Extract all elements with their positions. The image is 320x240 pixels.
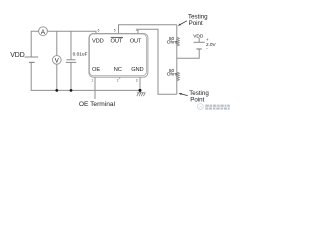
resistor R1 50 Ohm zigzag [177, 37, 180, 46]
wire voltmeter branch upper [56, 31, 58, 56]
wire capacitor branch upper [70, 31, 72, 60]
wire VDD stub above battery B2 [198, 38, 200, 43]
svg-text:Ohm: Ohm [167, 40, 177, 46]
svg-text:OUT: OUT [130, 38, 142, 44]
resistor R2 50 Ohm zigzag [177, 72, 180, 81]
watermark text [205, 105, 230, 110]
svg-text:1: 1 [91, 79, 93, 83]
wire battery negative down to ground bus [31, 62, 140, 90]
svg-text:V: V [55, 59, 59, 65]
svg-text:VDD: VDD [193, 33, 204, 39]
svg-text:Point: Point [190, 96, 204, 103]
svg-text:Point: Point [189, 20, 203, 27]
pin 2 NC stub [119, 77, 121, 79]
watermark logo [197, 104, 203, 110]
svg-text:OE: OE [92, 67, 100, 73]
svg-text:NC: NC [114, 67, 122, 73]
voltmeter V1 [53, 56, 62, 65]
junction dot voltmeter/ground bus [55, 89, 58, 92]
wire top supply bus from battery to pin 6 [31, 31, 96, 57]
svg-text:2: 2 [117, 79, 119, 83]
svg-text:VDD: VDD [92, 38, 104, 44]
wire GND pin 3 down to ground [139, 77, 141, 93]
battery B1 VDD short plate [29, 61, 35, 63]
wire pin 5 OUTbar loop to testing point chain [119, 25, 177, 34]
junction dot ground bus / GND pin [139, 89, 142, 92]
wire termination chain vertical [176, 25, 178, 95]
svg-text:Ohm: Ohm [167, 71, 177, 77]
svg-text:OUT: OUT [111, 38, 123, 44]
wire OE pin 1 leader down to label [94, 77, 96, 99]
battery B2 2.0V short plate [196, 48, 201, 50]
ammeter A1 [39, 27, 48, 36]
svg-text:VDD: VDD [10, 52, 25, 59]
arrow leader to lower testing point [178, 93, 187, 96]
wire pin 4 OUT loop down right side [138, 29, 177, 94]
svg-text:OE Terminal: OE Terminal [79, 101, 116, 108]
wire capacitor branch lower [70, 62, 72, 90]
capacitor C1 plates [67, 59, 76, 61]
svg-text:GND: GND [131, 67, 143, 73]
junction dot capacitor/ground bus [70, 89, 73, 92]
wire termination mid node to bias battery [177, 49, 199, 58]
battery B1 VDD long plate [25, 56, 39, 58]
overline of OUTbar [111, 36, 123, 38]
oscillator U1 package outline [89, 33, 148, 77]
svg-text:3: 3 [136, 79, 138, 83]
ground symbol [137, 93, 146, 96]
battery B2 2.0V long plate [194, 41, 205, 43]
svg-text:0.01uF: 0.01uF [73, 52, 88, 58]
svg-text:5: 5 [114, 29, 116, 33]
arrow leader to upper testing point [178, 21, 187, 26]
svg-text:6: 6 [98, 29, 100, 33]
wire voltmeter branch lower [56, 64, 58, 90]
